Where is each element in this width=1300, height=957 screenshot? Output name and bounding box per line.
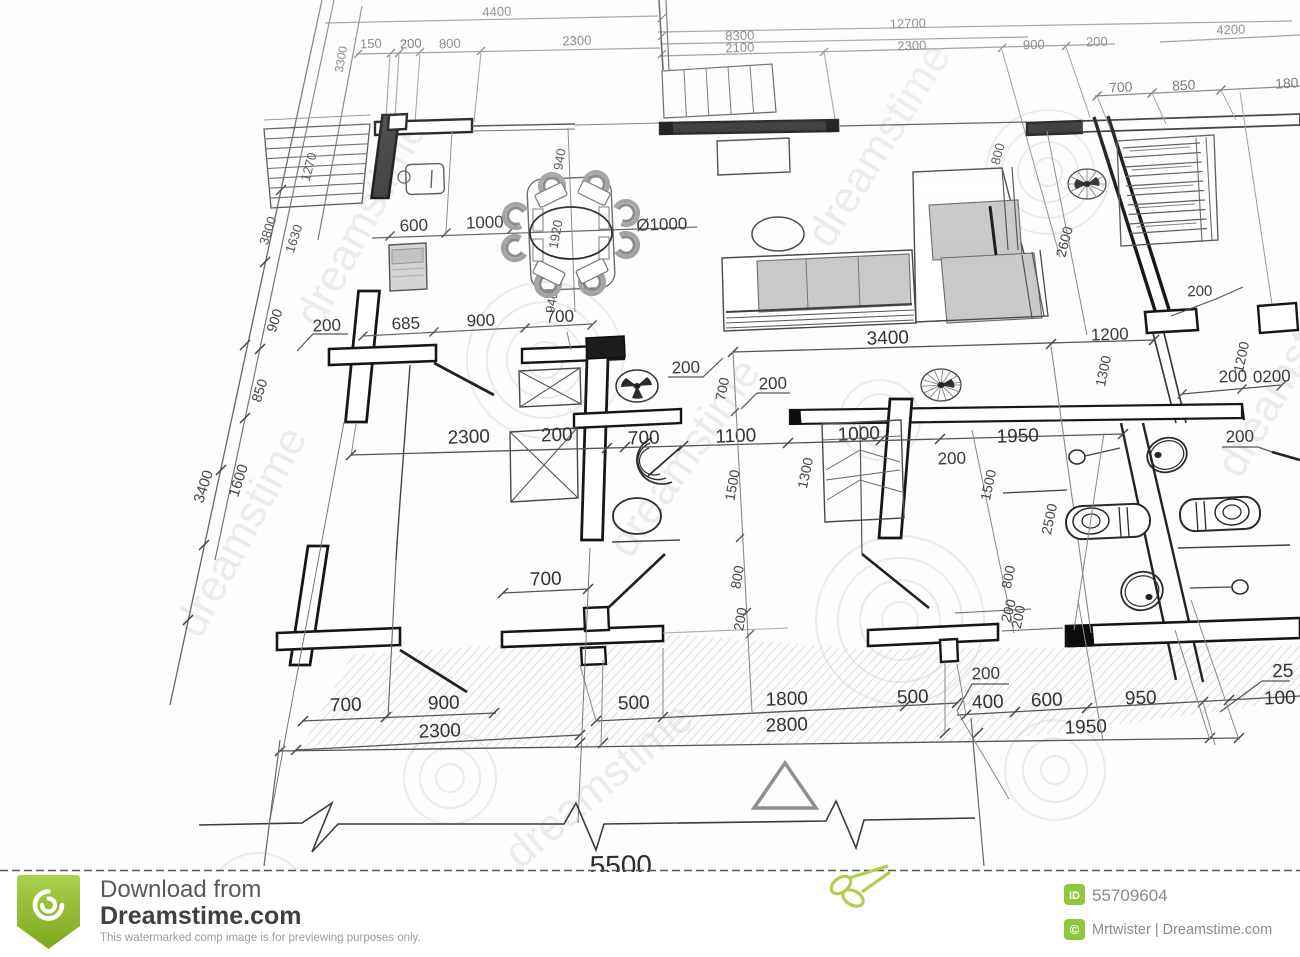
svg-text:1950: 1950 — [996, 425, 1039, 447]
top extension lines — [386, 47, 1090, 257]
wall bottom center-right — [868, 624, 998, 662]
dim row right — [957, 661, 1300, 720]
wall bottom middle — [502, 607, 663, 665]
scissors icon — [828, 866, 890, 910]
misc interior lines — [270, 422, 680, 823]
svg-text:55709604: 55709604 — [1092, 886, 1168, 905]
wall vertical right wing — [1094, 116, 1198, 423]
wall bedroom vertical — [879, 399, 912, 538]
wall bedrooms top — [790, 404, 1244, 424]
dim chain middle — [346, 423, 1300, 468]
svg-text:2300: 2300 — [418, 720, 461, 742]
svg-text:200: 200 — [671, 358, 700, 378]
fan symbol bedroom — [921, 369, 961, 401]
mid rotated labels — [721, 346, 1091, 712]
svg-text:200: 200 — [937, 449, 966, 469]
svg-text:2800: 2800 — [765, 714, 808, 736]
top dimension rows — [325, 4, 1300, 74]
boundary verticals bottom — [264, 718, 984, 866]
svg-text:Download from: Download from — [100, 876, 261, 903]
wall line bath divider — [1178, 545, 1290, 548]
svg-text:950: 950 — [1125, 687, 1157, 709]
wardrobe bedroom — [822, 420, 904, 522]
svg-text:3400: 3400 — [866, 327, 909, 349]
wall long vertical right — [1121, 423, 1203, 682]
window block right edge — [1258, 303, 1298, 333]
svg-text:0200: 0200 — [1253, 366, 1291, 386]
wall bathroom cross — [522, 336, 681, 540]
bottom extension lines — [580, 600, 1239, 799]
fan symbol bath — [616, 370, 658, 402]
separator dashed line — [0, 872, 1300, 957]
svg-text:ID: ID — [1069, 890, 1080, 902]
wall kitchen top — [372, 114, 662, 198]
dim 200 200 right — [1178, 366, 1292, 398]
dim row 2800 1950 — [275, 714, 1244, 756]
door swing bedroom — [862, 554, 929, 608]
svg-text:900: 900 — [466, 311, 495, 331]
svg-text:200: 200 — [312, 316, 341, 336]
svg-text:700: 700 — [628, 427, 660, 449]
left dimension chain — [170, 0, 362, 705]
svg-text:Dreamstime.com: Dreamstime.com — [100, 902, 301, 930]
label 200 window — [1171, 92, 1272, 316]
kitchen stove — [389, 243, 427, 291]
stairs top flight — [658, 0, 776, 118]
svg-text:200: 200 — [1187, 283, 1213, 301]
svg-text:2300: 2300 — [447, 426, 490, 448]
svg-text:25: 25 — [1272, 661, 1294, 683]
svg-text:700: 700 — [530, 568, 562, 590]
triangle marker — [754, 763, 816, 808]
svg-text:200: 200 — [1218, 367, 1247, 387]
stairs left flight — [264, 115, 370, 208]
svg-text:Mrtwister | Dreamstime.com: Mrtwister | Dreamstime.com — [1092, 922, 1272, 938]
svg-text:700: 700 — [330, 694, 362, 716]
dim 700 center — [498, 568, 593, 598]
author badge row — [1064, 919, 1272, 940]
basin 1 — [1143, 433, 1192, 478]
wall hall cross — [329, 291, 436, 529]
dim 3400 1200 — [728, 324, 1252, 388]
labels 200 700 bath — [668, 358, 790, 409]
svg-text:200: 200 — [971, 664, 1000, 684]
svg-text:500: 500 — [897, 686, 929, 708]
svg-text:1800: 1800 — [765, 688, 808, 710]
threshold line — [663, 628, 788, 633]
right wing dims — [988, 74, 1300, 335]
svg-text:This watermarked comp image is: This watermarked comp image is for previ… — [100, 932, 421, 944]
kitchen dims — [372, 128, 697, 314]
wardrobe hatched — [1117, 135, 1218, 246]
wall bottom left cross — [277, 546, 400, 665]
dreamstime badge — [17, 875, 80, 949]
door swing hall — [434, 363, 494, 395]
dim row center — [591, 698, 962, 726]
svg-text:685: 685 — [391, 314, 420, 334]
extension line bath — [1074, 433, 1104, 630]
svg-text:1200: 1200 — [1091, 324, 1129, 344]
side table — [752, 217, 804, 251]
dim 2300 left — [291, 692, 585, 755]
appliance box upper — [519, 368, 581, 407]
tv cabinet — [717, 138, 790, 175]
appliance box lower — [510, 428, 578, 502]
door swing bottom left — [400, 650, 467, 692]
kitchen sink — [398, 163, 445, 194]
svg-text:700: 700 — [545, 307, 574, 327]
svg-text:400: 400 — [972, 691, 1004, 713]
fan symbol hall — [1068, 169, 1106, 199]
svg-text:1100: 1100 — [715, 425, 757, 447]
wall under stairs — [660, 120, 1027, 134]
door swing bathroom — [608, 554, 665, 608]
svg-text:900: 900 — [428, 692, 460, 714]
wall top right — [1027, 114, 1300, 135]
wall bottom right — [1066, 618, 1300, 647]
dims 200 685 900 700 center — [297, 307, 597, 351]
basin 2 — [1116, 566, 1168, 615]
dim 5500 break line — [199, 801, 975, 882]
shower — [637, 438, 682, 484]
top fade overlay — [0, 0, 1300, 260]
svg-text:500: 500 — [618, 692, 650, 714]
id badge row — [1064, 884, 1168, 905]
dining table and chairs — [503, 172, 638, 296]
knob 1 — [1069, 448, 1120, 464]
knob 2 — [1190, 580, 1248, 594]
dim 200 small right — [955, 597, 1063, 631]
svg-text:1000: 1000 — [837, 423, 880, 445]
wc right 2 — [1179, 496, 1260, 532]
svg-text:200: 200 — [758, 374, 787, 394]
dim 700 900 left — [298, 694, 499, 726]
wc bath — [613, 498, 661, 534]
svg-text:100: 100 — [1264, 687, 1296, 709]
svg-text:200: 200 — [541, 424, 573, 446]
sofa corner unit — [722, 167, 1048, 331]
labels 500 1800 500 — [618, 686, 929, 714]
svg-text:200: 200 — [1225, 427, 1254, 447]
wc right 1 — [1065, 503, 1150, 540]
svg-text:©: © — [1070, 922, 1080, 937]
door leaf bedroom — [860, 425, 862, 554]
svg-text:600: 600 — [1031, 689, 1063, 711]
